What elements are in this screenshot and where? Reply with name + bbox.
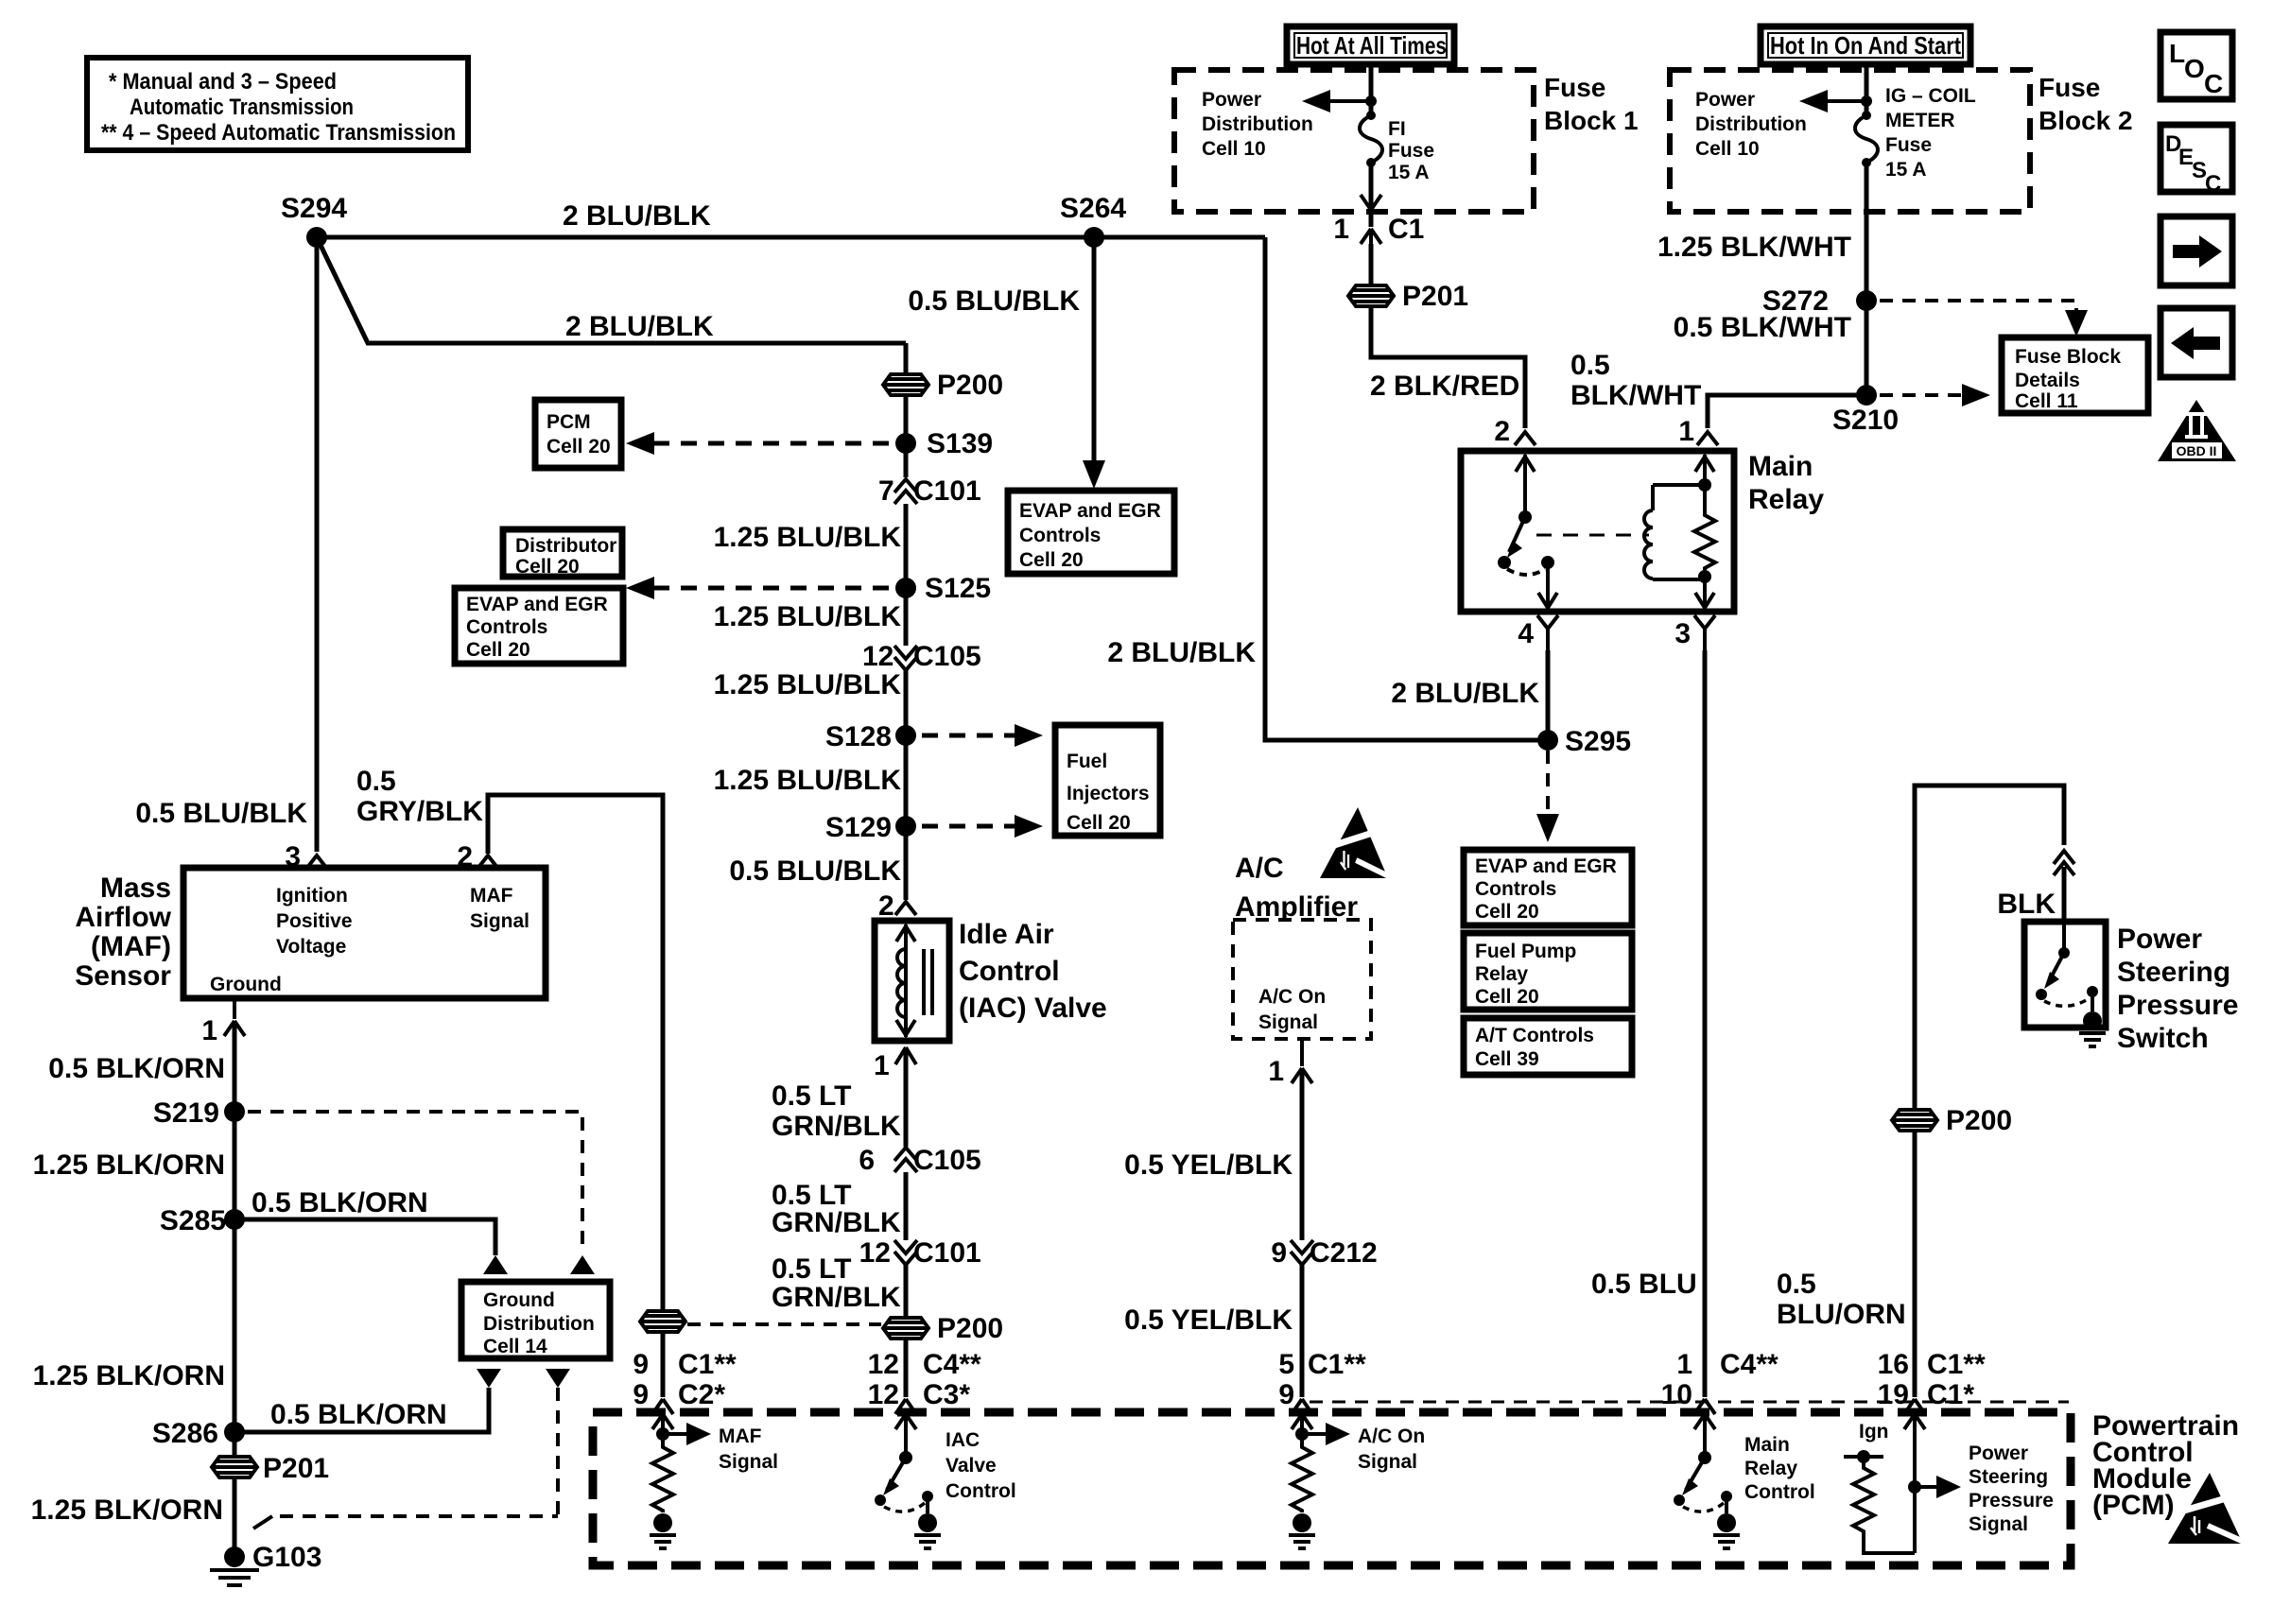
wire C105 to C101 (0.5 LT GRN/BLK)	[904, 1172, 909, 1240]
svg-text:0.5 BLU/BLK: 0.5 BLU/BLK	[135, 798, 307, 829]
dashed below right triangle	[556, 1388, 560, 1517]
svg-text:2: 2	[878, 890, 894, 922]
relay pin 1	[1697, 432, 1718, 445]
svg-text:Fuse Block: Fuse Block	[2015, 346, 2121, 368]
dashed hop to ground distribution	[253, 1516, 272, 1529]
svg-text:* Manual and 3 – Speed: * Manual and 3 – Speed	[109, 69, 337, 95]
svg-text:Hot In On And Start: Hot In On And Start	[1770, 31, 1961, 60]
wire S294 to S264 (2 BLU/BLK)	[317, 235, 1265, 240]
svg-text:Control: Control	[946, 1480, 1016, 1502]
svg-text:Fuse: Fuse	[1544, 73, 1605, 102]
svg-text:C101: C101	[913, 1237, 981, 1269]
svg-text:L: L	[2169, 39, 2185, 68]
dashed arrow S128 to Fuel Injectors	[922, 734, 1021, 738]
arrow to Power Distribution (block 1)	[1319, 99, 1371, 103]
relay pin 3	[1694, 615, 1715, 652]
PCM internal: A/C on signal resistor	[1289, 1412, 1425, 1548]
wire C101 to S125 (1.25 BLU/BLK)	[904, 504, 909, 588]
relay mechanical dashed link	[1536, 534, 1649, 537]
svg-text:PCM: PCM	[547, 411, 591, 433]
svg-text:S285: S285	[160, 1205, 226, 1236]
wire C101 to P200 (0.5 LT GRN/BLK)	[904, 1265, 909, 1397]
svg-text:2 BLU/BLK: 2 BLU/BLK	[1391, 678, 1539, 709]
box Fuel Injectors Cell 20	[1055, 725, 1160, 836]
box PCM Cell 20	[535, 400, 621, 468]
PCM internal: MAF signal resistor	[650, 1412, 778, 1548]
MAF pin 3	[306, 855, 327, 869]
dashed wire S272 to fuse block details	[1880, 301, 2076, 317]
PCM internal: IAC valve control switch	[875, 1412, 1016, 1548]
svg-text:Control: Control	[1744, 1481, 1815, 1503]
svg-text:Valve: Valve	[946, 1455, 997, 1477]
wire S286 branch up to box (0.5 BLK/ORN)	[234, 1388, 489, 1432]
svg-text:1.25 BLK/ORN: 1.25 BLK/ORN	[31, 1494, 223, 1526]
svg-text:Airflow: Airflow	[75, 902, 171, 933]
svg-text:S139: S139	[927, 428, 993, 459]
svg-text:S219: S219	[153, 1097, 219, 1129]
triangle below box (right)	[546, 1369, 570, 1388]
svg-text:Ground: Ground	[210, 974, 282, 995]
svg-text:Controls: Controls	[466, 616, 547, 638]
box MAF sensor	[183, 868, 546, 998]
svg-text:Distribution: Distribution	[1695, 113, 1807, 135]
svg-text:Signal: Signal	[1358, 1451, 1417, 1473]
svg-text:Steering: Steering	[2117, 957, 2230, 988]
svg-text:C1: C1	[1388, 214, 1424, 245]
svg-text:** 4 – Speed Automatic Transmi: ** 4 – Speed Automatic Transmission	[101, 120, 456, 146]
svg-text:Sensor: Sensor	[75, 960, 171, 992]
svg-text:0.5 LT: 0.5 LT	[772, 1080, 851, 1112]
svg-text:Switch: Switch	[2117, 1023, 2209, 1054]
svg-text:BLU/ORN: BLU/ORN	[1777, 1299, 1906, 1330]
MAF pin 1	[224, 998, 245, 1036]
svg-text:0.5 YEL/BLK: 0.5 YEL/BLK	[1124, 1304, 1293, 1336]
svg-text:OBD II: OBD II	[2177, 443, 2217, 458]
svg-text:C1**: C1**	[1308, 1349, 1366, 1380]
svg-text:Block 1: Block 1	[1544, 106, 1639, 135]
node S272	[1856, 290, 1877, 311]
svg-text:O: O	[2184, 54, 2205, 83]
svg-text:S210: S210	[1832, 405, 1899, 436]
node S294	[306, 227, 327, 248]
svg-text:16: 16	[1878, 1349, 1909, 1380]
svg-text:0.5 BLK/WHT: 0.5 BLK/WHT	[1674, 312, 1851, 343]
relay pin 2	[1515, 432, 1536, 445]
box EVAP and EGR Controls Cell 20 (left)	[455, 588, 623, 664]
svg-text:GRN/BLK: GRN/BLK	[772, 1207, 901, 1238]
dashed arrow S210 to fuse block details	[1880, 393, 1967, 397]
svg-text:C1*: C1*	[1927, 1379, 1974, 1410]
box EVAP and EGR Controls Cell 20 (middle)	[1008, 491, 1174, 574]
ESD triangle (PCM)	[2168, 1473, 2244, 1544]
svg-text:Hot At All Times: Hot At All Times	[1296, 31, 1447, 60]
power steering pressure switch box	[2024, 922, 2106, 1028]
svg-text:Cell 10: Cell 10	[1202, 138, 1266, 160]
fuse IG-COIL METER 15A symbol	[1855, 85, 1976, 181]
connector P200 (right)	[1892, 1105, 2012, 1136]
svg-text:GRN/BLK: GRN/BLK	[772, 1282, 901, 1313]
svg-text:0.5 BLK/ORN: 0.5 BLK/ORN	[48, 1053, 225, 1084]
svg-text:BLK: BLK	[1997, 889, 2056, 920]
node S210	[1856, 385, 1877, 406]
svg-text:Relay: Relay	[1744, 1458, 1797, 1479]
svg-text:P201: P201	[263, 1453, 329, 1484]
connector P200 (lower middle)	[883, 1313, 1003, 1344]
svg-text:Cell 20: Cell 20	[1475, 901, 1539, 923]
svg-text:1: 1	[201, 1015, 217, 1046]
svg-text:C101: C101	[913, 475, 981, 507]
svg-text:MAF: MAF	[470, 885, 513, 907]
wire A/C pin 1 to C212 (0.5 YEL/BLK)	[1300, 1068, 1305, 1240]
svg-text:C4**: C4**	[1720, 1349, 1778, 1380]
svg-text:Fuse: Fuse	[1388, 140, 1434, 162]
svg-text:Power: Power	[2117, 924, 2202, 955]
svg-text:C1**: C1**	[678, 1349, 737, 1380]
svg-text:4: 4	[1518, 618, 1534, 649]
svg-text:C: C	[2204, 69, 2223, 98]
svg-text:C1**: C1**	[1927, 1349, 1986, 1380]
svg-text:Pressure: Pressure	[1969, 1490, 2054, 1512]
ESD triangle (A/C)	[1320, 807, 1389, 878]
connector C105 pin 12	[862, 641, 981, 672]
wire S210 to relay pin 1 (0.5 BLK/WHT)	[1708, 395, 1866, 428]
PCM internal: main relay control switch	[1674, 1412, 1815, 1548]
wire C212 to PCM (0.5 YEL/BLK)	[1300, 1265, 1305, 1397]
node S219	[224, 1101, 245, 1122]
svg-text:1.25 BLU/BLK: 1.25 BLU/BLK	[714, 601, 902, 632]
svg-text:12: 12	[868, 1379, 899, 1410]
wire middle column down from corner	[904, 343, 909, 477]
svg-text:Fuse: Fuse	[2039, 73, 2100, 102]
svg-text:(IAC) Valve: (IAC) Valve	[959, 993, 1107, 1024]
connector C101 pin 7	[878, 475, 981, 507]
svg-text:0.5 BLU: 0.5 BLU	[1591, 1269, 1697, 1300]
svg-text:12: 12	[868, 1349, 899, 1380]
svg-text:IAC: IAC	[946, 1429, 980, 1451]
svg-text:5: 5	[1278, 1349, 1294, 1380]
svg-text:2: 2	[1494, 416, 1510, 447]
svg-text:9: 9	[633, 1349, 649, 1380]
svg-text:EVAP and EGR: EVAP and EGR	[1019, 500, 1161, 522]
svg-text:C105: C105	[913, 1145, 981, 1176]
IAC valve box	[875, 921, 949, 1041]
icon right arrow box	[2160, 216, 2232, 285]
svg-text:Power: Power	[1969, 1443, 2028, 1464]
svg-text:1: 1	[874, 1050, 890, 1081]
box Fuel Pump Relay Cell 20	[1464, 933, 1632, 1010]
svg-text:C105: C105	[913, 641, 981, 672]
node S286	[224, 1422, 245, 1443]
A/C On Signal dashed box	[1233, 920, 1371, 1039]
box A/T Controls Cell 39	[1464, 1018, 1632, 1075]
dashed arrow S125 to EVAP/Distributor boxes	[648, 586, 889, 591]
node S139	[895, 433, 916, 454]
thin dashed C1 boundary	[1310, 1401, 2069, 1404]
svg-text:Power: Power	[1202, 89, 1261, 111]
svg-text:P201: P201	[1402, 281, 1468, 312]
svg-text:Details: Details	[2015, 370, 2080, 391]
wire relay pin 3 down to PCM (0.5 BLU)	[1703, 650, 1708, 1397]
svg-text:GRN/BLK: GRN/BLK	[772, 1111, 901, 1142]
svg-text:0.5: 0.5	[356, 766, 396, 797]
box Ground Distribution Cell 14	[461, 1282, 610, 1358]
box EVAP and EGR Controls Cell 20 (right)	[1464, 850, 1632, 925]
svg-text:Signal: Signal	[1258, 1011, 1318, 1033]
svg-text:Signal: Signal	[1969, 1513, 2028, 1535]
box Fuse Block Details Cell 11	[2002, 337, 2148, 413]
svg-text:1.25 BLU/BLK: 1.25 BLU/BLK	[714, 669, 902, 700]
svg-text:Ignition: Ignition	[276, 885, 348, 907]
svg-text:Controls: Controls	[1475, 878, 1556, 900]
svg-text:S125: S125	[925, 573, 991, 604]
svg-text:Cell 20: Cell 20	[1067, 812, 1131, 834]
wire S285 branch to ground distribution (0.5 BLK/ORN)	[234, 1219, 495, 1255]
pin 2 of IAC valve	[895, 902, 916, 915]
connector P200 (middle)	[883, 370, 1003, 401]
wire fuse to C1 with arrow	[1369, 163, 1374, 227]
relay pin 4	[1537, 615, 1558, 652]
svg-text:Pressure: Pressure	[2117, 990, 2238, 1021]
svg-text:Cell 39: Cell 39	[1475, 1048, 1539, 1070]
svg-text:Main: Main	[1744, 1434, 1790, 1456]
svg-text:Fuse: Fuse	[1885, 134, 1932, 156]
svg-text:Relay: Relay	[1748, 484, 1824, 515]
connector P201 (bottom)	[212, 1432, 329, 1557]
PCM internal: Ign resistor and PSP signal	[1844, 1412, 2054, 1553]
svg-text:Cell 20: Cell 20	[1475, 986, 1539, 1008]
wire S264 to S295 (2 BLU/BLK)	[1265, 237, 1548, 740]
svg-text:3: 3	[1674, 618, 1691, 649]
svg-text:1: 1	[1333, 214, 1349, 245]
svg-text:9: 9	[633, 1379, 649, 1410]
wire S264 down to EVAP box (0.5 BLU/BLK)	[1092, 237, 1097, 471]
svg-text:C2*: C2*	[678, 1379, 725, 1410]
svg-text:BLK/WHT: BLK/WHT	[1570, 380, 1701, 411]
wire P201 to relay pin2 (2 BLK/RED)	[1371, 345, 1525, 428]
svg-text:1: 1	[1676, 1349, 1692, 1380]
svg-text:IG – COIL: IG – COIL	[1885, 85, 1976, 107]
svg-text:Voltage: Voltage	[276, 936, 346, 958]
svg-text:0.5 BLU/BLK: 0.5 BLU/BLK	[729, 855, 901, 887]
svg-text:Distribution: Distribution	[1202, 113, 1313, 135]
box Hot At All Times	[1287, 26, 1454, 64]
svg-text:(MAF): (MAF)	[91, 931, 171, 962]
svg-text:Mass: Mass	[100, 872, 171, 904]
node S264	[1084, 227, 1104, 248]
svg-text:0.5 LT: 0.5 LT	[772, 1253, 851, 1285]
svg-text:0.5 BLK/ORN: 0.5 BLK/ORN	[252, 1187, 428, 1218]
wire into fuse block 2	[1865, 62, 1869, 113]
svg-text:Cell 20: Cell 20	[547, 436, 611, 458]
svg-text:S129: S129	[825, 812, 892, 843]
svg-text:6: 6	[859, 1145, 875, 1176]
svg-text:Block 2: Block 2	[2039, 106, 2133, 135]
box Hot In On And Start	[1761, 26, 1970, 64]
svg-text:Controls: Controls	[1019, 525, 1101, 546]
pin 1 of A/C amplifier	[1292, 1039, 1312, 1083]
relay coil	[1644, 485, 1705, 579]
fuse block 2 dashed box	[1670, 70, 2030, 212]
svg-text:12: 12	[859, 1237, 891, 1269]
svg-text:Amplifier: Amplifier	[1235, 891, 1358, 923]
box Distributor Cell 20	[503, 529, 622, 577]
wire S294 diagonal branch (2 BLU/BLK)	[317, 237, 906, 343]
svg-text:C3*: C3*	[923, 1379, 970, 1410]
pin 1 of IAC valve	[895, 1047, 916, 1064]
svg-text:(PCM): (PCM)	[2092, 1490, 2175, 1521]
svg-text:1.25 BLK/WHT: 1.25 BLK/WHT	[1657, 232, 1851, 263]
svg-text:S286: S286	[152, 1418, 218, 1449]
svg-text:10: 10	[1661, 1379, 1692, 1410]
arrow to Power Distribution (block 2)	[1816, 99, 1866, 103]
svg-text:Cell 20: Cell 20	[515, 556, 580, 578]
svg-text:Cell 10: Cell 10	[1695, 138, 1760, 160]
svg-text:1.25 BLU/BLK: 1.25 BLU/BLK	[714, 765, 902, 796]
svg-text:Ign: Ign	[1859, 1421, 1889, 1443]
svg-text:C4**: C4**	[923, 1349, 981, 1380]
svg-text:2 BLU/BLK: 2 BLU/BLK	[565, 311, 714, 342]
note box (transmission legend)	[87, 58, 468, 150]
harness chevrons on BLK wire	[2054, 851, 2074, 875]
svg-text:Distributor: Distributor	[515, 535, 616, 557]
wire S128 to S129 (1.25 BLU/BLK)	[904, 735, 909, 826]
svg-text:Signal: Signal	[470, 910, 529, 932]
svg-text:0.5 BLU/BLK: 0.5 BLU/BLK	[908, 285, 1080, 317]
node S128	[895, 725, 916, 746]
fuse block 1 dashed box	[1174, 70, 1534, 212]
svg-text:0.5 BLK/ORN: 0.5 BLK/ORN	[270, 1399, 447, 1430]
wire IAC to C105 (0.5 LT GRN/BLK)	[904, 1047, 909, 1147]
svg-text:S295: S295	[1565, 726, 1631, 757]
svg-text:1.25 BLK/ORN: 1.25 BLK/ORN	[33, 1360, 225, 1391]
svg-text:0.5: 0.5	[1777, 1269, 1816, 1300]
svg-text:Fuel Pump: Fuel Pump	[1475, 941, 1576, 962]
svg-text:C: C	[2205, 171, 2221, 197]
svg-text:S264: S264	[1060, 193, 1126, 224]
svg-text:Control: Control	[959, 956, 1060, 987]
PSP switch internals	[2036, 922, 2106, 1046]
wire MAF pin2 GRY/BLK up and over	[488, 795, 663, 1397]
wire MAF pin1 to S219 (0.5 BLK/ORN)	[233, 1021, 237, 1112]
wire S125 down (1.25 BLU/BLK)	[904, 588, 909, 646]
node S125	[895, 578, 916, 598]
relay internal resistor	[1694, 455, 1715, 608]
svg-text:FI: FI	[1388, 118, 1406, 140]
svg-text:Injectors: Injectors	[1067, 783, 1150, 804]
wire S272 to S210 (0.5 BLK/WHT)	[1865, 301, 1869, 395]
wire C105 to S128 (1.25 BLU/BLK)	[904, 670, 909, 735]
svg-text:P200: P200	[1946, 1105, 2012, 1136]
connector C212 pin 9	[1271, 1237, 1377, 1269]
svg-text:7: 7	[878, 475, 894, 507]
svg-text:Automatic Transmission: Automatic Transmission	[130, 95, 354, 120]
icon DESC box	[2160, 125, 2232, 197]
svg-text:Signal: Signal	[719, 1451, 778, 1473]
svg-text:A/T Controls: A/T Controls	[1475, 1025, 1594, 1046]
wire PSP switch loop	[1915, 786, 2064, 1397]
svg-text:P200: P200	[937, 370, 1003, 401]
PCM dashed box	[593, 1412, 2071, 1565]
svg-text:9: 9	[1271, 1237, 1287, 1269]
main relay box	[1461, 451, 1734, 612]
svg-text:2 BLU/BLK: 2 BLU/BLK	[563, 200, 711, 232]
relay internal switch	[1498, 455, 1557, 608]
svg-text:A/C: A/C	[1235, 853, 1284, 884]
svg-text:Cell 20: Cell 20	[1019, 549, 1084, 571]
svg-text:Relay: Relay	[1475, 963, 1528, 985]
svg-text:Power: Power	[1695, 89, 1755, 111]
svg-text:1: 1	[1678, 416, 1694, 447]
wire S294 down to MAF pin 3	[315, 237, 320, 852]
svg-text:MAF: MAF	[719, 1425, 762, 1447]
svg-text:Positive: Positive	[276, 910, 353, 932]
svg-text:EVAP and EGR: EVAP and EGR	[466, 594, 608, 615]
svg-text:2 BLU/BLK: 2 BLU/BLK	[1107, 637, 1256, 668]
dashed arrow S139 to PCM cell 20	[648, 441, 889, 446]
connector on GRY/BLK wire	[640, 1311, 685, 1332]
svg-text:0.5: 0.5	[1570, 350, 1610, 381]
icon OBD II triangle	[2158, 400, 2236, 461]
connector C105 pin 6	[859, 1145, 980, 1176]
dashed link connector to P200	[687, 1322, 881, 1326]
wire S129 down (0.5 BLU/BLK)	[904, 826, 909, 900]
svg-text:Cell 20: Cell 20	[466, 639, 530, 661]
svg-text:Ground: Ground	[483, 1289, 555, 1311]
svg-text:1: 1	[1268, 1056, 1284, 1087]
svg-text:19: 19	[1878, 1379, 1909, 1410]
svg-text:A/C On: A/C On	[1358, 1425, 1425, 1447]
svg-text:15 A: 15 A	[1388, 162, 1430, 183]
svg-text:1.25 BLK/ORN: 1.25 BLK/ORN	[33, 1149, 225, 1181]
dashed arrow S295 to EVAP box	[1546, 751, 1550, 815]
triangle below box (left)	[477, 1369, 501, 1388]
node S295	[1537, 730, 1558, 751]
connector P201 (top)	[1348, 244, 1468, 345]
svg-text:Fuel: Fuel	[1067, 751, 1107, 772]
svg-text:Idle Air: Idle Air	[959, 919, 1054, 950]
svg-text:Cell 11: Cell 11	[2015, 390, 2078, 412]
svg-text:Steering: Steering	[1969, 1466, 2048, 1488]
connector 1 C1	[1361, 229, 1381, 261]
svg-text:Cell 14: Cell 14	[483, 1336, 547, 1357]
node S129	[895, 816, 916, 837]
node S285	[224, 1209, 245, 1230]
dashed wire S219 to ground distribution	[248, 1112, 582, 1253]
IAC valve internal coil	[896, 924, 932, 1037]
svg-text:Distribution: Distribution	[483, 1313, 595, 1335]
svg-text:15 A: 15 A	[1885, 159, 1927, 181]
svg-text:GRY/BLK: GRY/BLK	[356, 796, 483, 827]
svg-text:A/C On: A/C On	[1258, 986, 1326, 1008]
svg-text:S128: S128	[825, 721, 892, 752]
icon LOC box	[2160, 32, 2232, 99]
wire fuse block 2 down to S272 (1.25 BLK/WHT)	[1865, 163, 1869, 301]
svg-text:12: 12	[862, 641, 894, 672]
svg-text:0.5 YEL/BLK: 0.5 YEL/BLK	[1124, 1149, 1293, 1181]
dashed arrow S129 to Fuel Injectors	[922, 824, 1021, 829]
wire into fuse block 1	[1369, 62, 1374, 113]
MAF pin 2	[477, 855, 498, 869]
svg-text:G103: G103	[252, 1542, 321, 1573]
wire S285 to S286 (1.25 BLK/ORN)	[233, 1219, 237, 1432]
svg-text:S294: S294	[281, 193, 347, 224]
svg-text:1.25 BLU/BLK: 1.25 BLU/BLK	[714, 522, 902, 553]
ground G103	[210, 1542, 321, 1585]
wire S219 to S285 (1.25 BLK/ORN)	[233, 1112, 237, 1219]
fuse FI 15A symbol (block 1)	[1360, 111, 1434, 183]
icon left arrow box	[2160, 308, 2232, 377]
svg-text:EVAP and EGR: EVAP and EGR	[1475, 855, 1617, 877]
